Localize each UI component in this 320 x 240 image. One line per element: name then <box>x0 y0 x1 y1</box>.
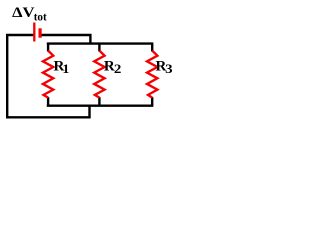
wire: top rail <box>47 42 154 44</box>
wire: R2 top stub <box>98 44 100 52</box>
wire: R3 bottom stub <box>151 97 153 106</box>
svg-text:3: 3 <box>165 62 173 76</box>
svg-text:1: 1 <box>62 62 69 76</box>
svg-text:tot: tot <box>34 12 47 24</box>
resistor R1 zigzag <box>43 51 53 98</box>
battery V_tot: short plate <box>38 28 41 37</box>
svg-text:2: 2 <box>114 62 122 76</box>
wire: R1 bottom stub <box>47 97 49 106</box>
wire: battery to top rail feed drop <box>41 35 90 44</box>
wire: bottom rail <box>47 104 154 106</box>
resistor R3 zigzag <box>147 51 157 98</box>
wire: left + top-left + bottom return loop <box>7 35 89 117</box>
wire: R2 bottom stub <box>98 97 100 106</box>
resistor R2 zigzag <box>94 51 104 98</box>
wire: R3 top stub <box>151 44 153 52</box>
svg-text:ΔV: ΔV <box>12 5 35 21</box>
wire: R1 top stub <box>47 44 49 52</box>
battery V_tot: long plate <box>33 23 35 42</box>
